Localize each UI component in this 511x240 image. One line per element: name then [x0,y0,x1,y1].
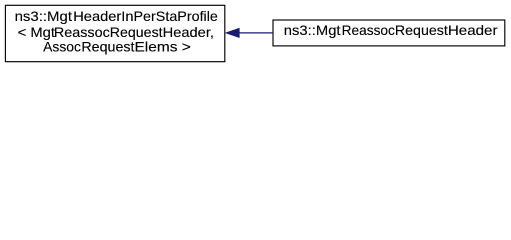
svg-text:Header: Header [448,23,498,38]
svg-text:Reassoc: Reassoc [342,23,395,38]
inheritance edge wire [239,32,273,34]
svg-text:Request: Request [81,40,134,55]
label ns3::MgtReassocRequestHeader [284,23,498,38]
svg-text:PerStaProfile: PerStaProfile [134,9,219,24]
svg-text:Reassoc: Reassoc [54,25,110,40]
svg-text:ns3::Mgt: ns3::Mgt [15,9,73,24]
svg-text:HeaderIn: HeaderIn [73,9,133,24]
label line 3 AssocRequestElems > [43,40,191,55]
svg-text:Assoc: Assoc [43,40,81,55]
svg-text:ns3::Mgt: ns3::Mgt [284,23,341,38]
svg-text:< Mgt: < Mgt [18,25,56,40]
svg-text:Request: Request [395,23,448,38]
node box ns3::MgtHeaderInPerStaProfile [5,5,224,61]
node box ns3::MgtReassocRequestHeader [273,20,505,46]
svg-text:Request: Request [110,25,163,40]
label line 1 ns3::MgtHeaderInPerStaProfile [15,9,219,24]
inheritance arrowhead [226,28,240,37]
svg-text:Header,: Header, [163,25,214,40]
label line 2 < MgtReassocRequestHeader, [18,25,214,40]
svg-text:Elems >: Elems > [134,40,190,55]
